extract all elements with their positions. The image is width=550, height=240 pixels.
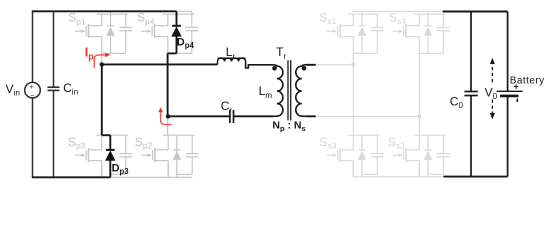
svg-text:+: + — [29, 82, 34, 91]
svg-text:Battery: Battery — [510, 76, 545, 87]
svg-text:Np : Ns: Np : Ns — [272, 120, 305, 134]
